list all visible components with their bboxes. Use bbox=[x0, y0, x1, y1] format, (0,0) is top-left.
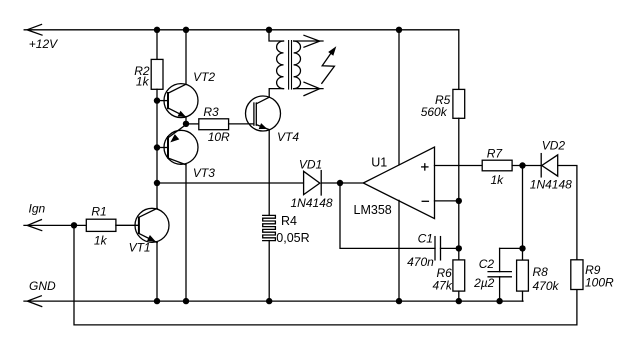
svg-text:10R: 10R bbox=[208, 130, 230, 144]
svg-text:R8: R8 bbox=[533, 265, 549, 279]
transformer core bbox=[289, 40, 292, 90]
label C1 bbox=[418, 232, 433, 246]
svg-text:100R: 100R bbox=[585, 276, 614, 290]
junction VT2 base bbox=[154, 97, 160, 103]
junction opamp output node bbox=[337, 180, 343, 186]
value 10R of R3 bbox=[208, 130, 230, 144]
value 100R of R9 bbox=[585, 276, 614, 290]
label R9 bbox=[585, 263, 601, 277]
svg-text:1N4148: 1N4148 bbox=[530, 178, 572, 192]
wire +12V rail bbox=[24, 29, 459, 31]
junction R7-VD2-R8 node bbox=[519, 162, 525, 168]
resistor R5 bbox=[453, 89, 465, 118]
resistor R3 bbox=[186, 119, 254, 130]
resistor R2 bbox=[151, 30, 163, 90]
svg-text:470k: 470k bbox=[533, 279, 560, 293]
wire feedback output to C1 bbox=[340, 183, 435, 248]
wire VT4 emitter to R4 bbox=[268, 130, 270, 216]
value 560k of R5 bbox=[421, 105, 448, 119]
label R1 bbox=[91, 205, 106, 219]
svg-text:470n: 470n bbox=[407, 255, 434, 269]
svg-text:1k: 1k bbox=[136, 75, 150, 89]
transformer primary winding bbox=[269, 30, 284, 89]
wire VT3 collector to GND bbox=[185, 165, 187, 301]
label R7 bbox=[487, 147, 504, 161]
junction R6 at GND bbox=[456, 298, 462, 304]
label VT4 bbox=[277, 130, 299, 144]
svg-text:VT3: VT3 bbox=[193, 166, 215, 180]
label R4 bbox=[281, 214, 297, 228]
resistor R8 bbox=[517, 260, 529, 301]
wire opamp V+ supply bbox=[398, 30, 400, 165]
label R6 bbox=[437, 266, 453, 280]
transistor VT4 bbox=[246, 96, 281, 131]
resistor R4 shunt element bbox=[263, 215, 276, 240]
label R2 bbox=[134, 64, 150, 78]
svg-text:560k: 560k bbox=[421, 105, 448, 119]
value 1k of R1 bbox=[94, 233, 108, 247]
radiation lightning arrow bbox=[322, 46, 337, 83]
svg-text:2µ2: 2µ2 bbox=[473, 276, 495, 290]
wire GND rail bbox=[24, 300, 523, 302]
svg-text:47k: 47k bbox=[433, 278, 453, 292]
wire R4 to GND bbox=[268, 241, 270, 302]
resistor R7 bbox=[482, 160, 541, 171]
value 1k of R7 bbox=[491, 173, 505, 187]
transistor VT2 bbox=[157, 84, 198, 124]
value 470n of C1 bbox=[407, 255, 434, 269]
svg-text:1k: 1k bbox=[491, 173, 505, 187]
label VT1 bbox=[129, 241, 151, 255]
svg-text:C1: C1 bbox=[418, 232, 433, 246]
diode VD2 bbox=[541, 154, 558, 177]
value 470k of R8 bbox=[533, 279, 560, 293]
svg-text:1k: 1k bbox=[94, 233, 108, 247]
svg-text:VT4: VT4 bbox=[277, 130, 299, 144]
junction VT3 collector at GND bbox=[183, 298, 189, 304]
svg-text:VT2: VT2 bbox=[193, 70, 215, 84]
svg-text:R7: R7 bbox=[487, 147, 504, 161]
svg-text:+12V: +12V bbox=[29, 37, 58, 51]
wire VT1 emitter to GND bbox=[156, 243, 158, 302]
junction base bus to VD1 wire bbox=[154, 180, 160, 186]
junction VT2/VT3 emitters with R3 bbox=[183, 121, 189, 127]
junction rail-R2 bbox=[154, 27, 160, 33]
wire rail drop to R5 bbox=[458, 30, 460, 90]
transistor VT3 bbox=[157, 124, 198, 165]
junction VT1 emitter at GND bbox=[154, 298, 160, 304]
svg-text:GND: GND bbox=[29, 279, 56, 293]
wire C2 top link bbox=[500, 247, 523, 249]
junction C1 at R5/R6 line bbox=[456, 245, 462, 251]
value 2u2 of C2 bbox=[473, 276, 495, 290]
wire inverting input bbox=[435, 200, 459, 202]
value 1k of R2 bbox=[136, 75, 150, 89]
resistor R6 bbox=[453, 260, 465, 301]
svg-text:LM358: LM358 bbox=[354, 203, 392, 217]
wire opamp output bbox=[340, 182, 363, 184]
net label GND bbox=[29, 279, 56, 293]
wire base bus R2 to VT1 collector bbox=[156, 89, 158, 208]
label R5 bbox=[435, 93, 451, 107]
terminal arrow GND bbox=[27, 296, 41, 307]
transistor VT1 bbox=[135, 208, 169, 242]
capacitor C2 bbox=[488, 248, 511, 301]
value 0,05R of R4 bbox=[276, 231, 309, 245]
net label +12V bbox=[29, 37, 58, 51]
wire R5 to R6 bbox=[458, 118, 460, 260]
wire bottom return Ign to R9 bbox=[74, 225, 577, 325]
wire base bus to VD1 bbox=[157, 182, 304, 184]
terminal arrow +12V bbox=[27, 24, 42, 35]
svg-text:R3: R3 bbox=[203, 105, 219, 119]
label U1 bbox=[371, 156, 387, 170]
value 1N4148 of VD1 bbox=[291, 196, 333, 210]
wire Ign line bbox=[24, 224, 86, 226]
junction Ign to return line bbox=[71, 222, 77, 228]
junction rail-transformer bbox=[266, 27, 272, 33]
junction rail-opamp V+ bbox=[396, 27, 402, 33]
label VT2 bbox=[193, 70, 215, 84]
label VD2 bbox=[542, 138, 566, 152]
antenna lead arrow top bbox=[294, 35, 323, 47]
svg-text:Ign: Ign bbox=[29, 202, 46, 216]
junction opamp V- at GND bbox=[396, 298, 402, 304]
svg-text:C2: C2 bbox=[479, 257, 495, 271]
wire VT2 collector to rail bbox=[185, 30, 187, 84]
svg-text:R1: R1 bbox=[91, 205, 106, 219]
label R8 bbox=[533, 265, 549, 279]
label VT3 bbox=[193, 166, 215, 180]
resistor R1 bbox=[86, 219, 139, 231]
antenna lead arrow bottom bbox=[294, 82, 323, 95]
wire non-inverting input to R7 bbox=[435, 165, 483, 167]
label VD1 bbox=[299, 157, 322, 171]
diode VD1 bbox=[304, 171, 340, 195]
wire R7 node down to C2/R8 bbox=[522, 166, 524, 261]
svg-text:R9: R9 bbox=[585, 263, 601, 277]
wire VT4 collector to transformer bbox=[269, 89, 283, 98]
value 1N4148 of VD2 bbox=[530, 178, 572, 192]
resistor R9 bbox=[571, 260, 583, 290]
svg-text:0,05R: 0,05R bbox=[276, 231, 309, 245]
svg-text:VT1: VT1 bbox=[129, 241, 151, 255]
junction VT3 base bbox=[154, 144, 160, 150]
junction rail-VT2 collector bbox=[183, 27, 189, 33]
label C2 bbox=[479, 257, 495, 271]
junction inverting input node bbox=[456, 198, 462, 204]
op-amp U1 bbox=[363, 147, 434, 219]
transformer secondary winding bbox=[294, 41, 301, 89]
svg-text:VD2: VD2 bbox=[542, 138, 566, 152]
net label Ign bbox=[29, 202, 46, 216]
svg-text:1N4148: 1N4148 bbox=[291, 196, 333, 210]
terminal arrow Ign bbox=[27, 220, 41, 231]
wire opamp V- supply bbox=[398, 200, 400, 301]
value 47k of R6 bbox=[433, 278, 453, 292]
capacitor C1 bbox=[435, 237, 459, 260]
junction C2/R8 top node bbox=[519, 245, 525, 251]
svg-text:U1: U1 bbox=[371, 156, 387, 170]
value LM358 of U1 bbox=[354, 203, 392, 217]
wire VD2 to R9 bbox=[558, 166, 577, 260]
label R3 bbox=[203, 105, 219, 119]
junction C2 at GND bbox=[496, 298, 502, 304]
junction R4 at GND bbox=[266, 298, 272, 304]
svg-text:R4: R4 bbox=[281, 214, 297, 228]
svg-text:VD1: VD1 bbox=[299, 157, 322, 171]
